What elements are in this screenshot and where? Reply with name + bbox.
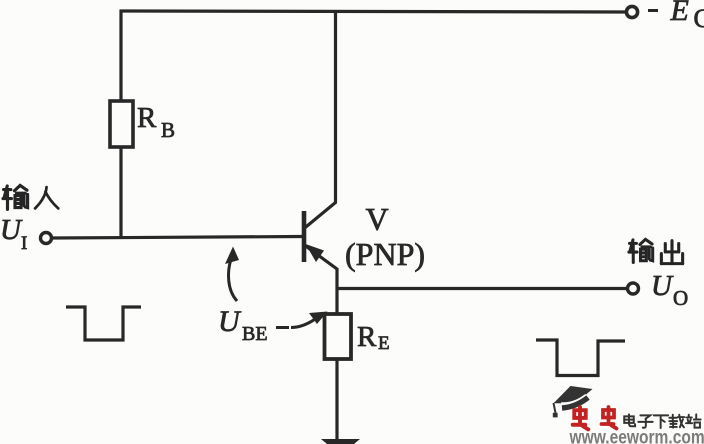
label 输出 (output) hand-drawn xyxy=(629,239,653,262)
transistor emitter arrow (PNP) xyxy=(306,244,325,262)
wire RE to ground xyxy=(335,359,338,440)
svg-text:BE: BE xyxy=(242,323,268,345)
power terminal -EC xyxy=(626,6,637,17)
label RE xyxy=(357,321,390,354)
resistor RE xyxy=(325,314,352,359)
wire top rail xyxy=(120,11,626,12)
wire left branch vertical to RB xyxy=(119,10,122,103)
waveform input pulse xyxy=(66,307,141,340)
input terminal xyxy=(41,233,52,244)
svg-text:U: U xyxy=(0,214,23,246)
arrow UBE to base xyxy=(229,259,237,301)
svg-text:R: R xyxy=(137,102,157,134)
resistor RB xyxy=(110,101,133,147)
svg-text:R: R xyxy=(357,321,377,353)
svg-text:C: C xyxy=(694,4,704,33)
arrow UBE to emitter xyxy=(276,326,289,329)
svg-text:V: V xyxy=(366,201,389,237)
logo graduation cap xyxy=(553,386,593,417)
svg-text:E: E xyxy=(378,333,390,354)
label 输入 (input) hand-drawn xyxy=(3,185,28,209)
label UBE xyxy=(218,305,268,345)
wire RB to base node xyxy=(119,147,122,239)
wire output xyxy=(337,287,627,290)
svg-text:E: E xyxy=(670,0,689,27)
logo 虫虫 red hand-drawn xyxy=(573,407,617,429)
label RB xyxy=(137,102,175,142)
wire base (input to transistor) xyxy=(52,237,302,239)
svg-text:O: O xyxy=(673,286,688,310)
ground xyxy=(321,439,360,444)
output terminal xyxy=(628,283,639,294)
label -EC xyxy=(648,9,658,12)
transistor collector xyxy=(304,10,336,229)
logo 电子下载站 hand-drawn xyxy=(624,414,700,428)
svg-text:(PNP): (PNP) xyxy=(345,236,425,272)
svg-text:U: U xyxy=(218,305,242,338)
svg-text:I: I xyxy=(21,233,27,254)
label UI xyxy=(0,214,27,254)
label UO xyxy=(651,270,688,310)
svg-text:www.eeworm.com: www.eeworm.com xyxy=(569,426,704,444)
transistor emitter xyxy=(305,246,337,316)
svg-text:B: B xyxy=(161,118,175,142)
svg-text:U: U xyxy=(651,270,674,302)
waveform output pulse xyxy=(536,340,625,376)
transistor V base bar xyxy=(302,211,307,262)
